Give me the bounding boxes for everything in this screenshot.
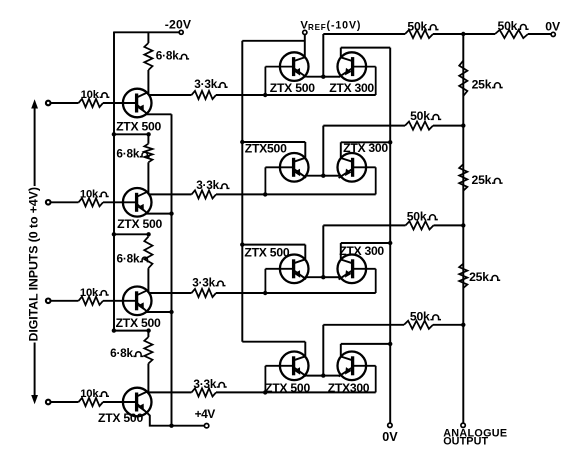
svg-text:ZTX 500: ZTX 500 [270,81,315,95]
svg-text:10k: 10k [80,287,99,299]
input range arrow [34,106,36,186]
resistor 6.8k row 3 [114,233,148,235]
transistor ZTX500 input bit 4 [123,388,152,417]
svg-text:DIGITAL INPUTS (0 to +4V): DIGITAL INPUTS (0 to +4V) [27,187,41,341]
junction node switch 4 [321,373,325,377]
svg-text:ZTX 300: ZTX 300 [339,244,384,258]
svg-text:25k: 25k [469,270,489,284]
resistor 6.8k row 2 [114,133,148,135]
0V bottom terminal [388,423,392,427]
svg-text:50k: 50k [407,209,427,223]
svg-text:-20V: -20V [165,17,192,31]
transistor ZTX500 input bit 2 [123,188,152,217]
input terminal bit 1 [46,101,51,106]
resistor 3.3k row 1 [148,94,191,96]
junction node switch 2 [321,174,325,178]
0V collector bus [389,48,391,423]
svg-text:3·3k: 3·3k [192,275,215,289]
svg-text:6·8k: 6·8k [156,49,179,63]
svg-text:6·8k: 6·8k [117,251,140,265]
svg-text:ZTX 500: ZTX 500 [244,246,289,260]
svg-text:3·3k: 3·3k [193,377,216,391]
transistor ZTX300 switch 3 [338,254,367,283]
transistor ZTX300 switch 2 [338,153,367,182]
svg-text:+4V: +4V [195,407,216,421]
Vref bus wire [304,35,306,58]
transistor ZTX500 switch 4 [280,352,309,381]
svg-text:50k: 50k [410,109,430,123]
+4V terminal [204,424,208,428]
transistor ZTX500 input bit 1 [123,89,152,118]
-20V terminal [179,30,183,34]
resistor 6.8k row 4 [114,330,148,332]
Vref terminal [303,30,307,34]
analogue output terminal [461,423,465,427]
svg-text:10k: 10k [80,188,99,200]
svg-text:ZTX500: ZTX500 [245,141,287,155]
svg-text:10k: 10k [80,388,99,400]
resistor 50k rung 1a [323,33,405,35]
svg-text:25k: 25k [472,77,492,91]
resistor 50k rung 2 [323,125,405,127]
svg-text:ZTX300: ZTX300 [328,381,370,395]
svg-text:ZTX 500: ZTX 500 [116,119,161,133]
junction node switch 1 [321,75,325,79]
svg-text:50k: 50k [498,19,518,33]
svg-text:3·3k: 3·3k [196,178,219,192]
svg-text:ZTX 500: ZTX 500 [265,381,310,395]
svg-text:ZTX 500: ZTX 500 [98,411,143,425]
resistor 50k rung 3 [323,224,405,226]
resistor 10k row 4 [50,401,79,403]
input terminal bit 2 [46,200,51,205]
svg-text:ZTX 500: ZTX 500 [116,316,161,330]
resistor 3.3k row 2 [148,193,191,195]
svg-text:6·8k: 6·8k [110,346,133,360]
junction node switch 3 [321,275,325,279]
svg-text:ZTX 500: ZTX 500 [117,217,162,231]
resistor 6.8k row 1 [147,32,149,43]
0V top terminal [551,32,555,36]
svg-text:50k: 50k [407,19,427,33]
svg-text:0V: 0V [382,430,398,444]
svg-text:3·3k: 3·3k [194,77,217,91]
svg-text:25k: 25k [472,173,492,187]
resistor 10k row 1 [50,102,79,104]
transistor ZTX500 switch 2 [280,153,309,182]
resistor 10k row 3 [50,300,79,302]
svg-text:6·8k: 6·8k [116,147,139,161]
transistor ZTX500 input bit 3 [123,287,152,316]
svg-text:0V: 0V [545,20,561,34]
resistor 3.3k row 4 [148,391,191,393]
ladder rail [462,34,464,423]
svg-text:ZTX 300: ZTX 300 [343,141,388,155]
transistor ZTX300 switch 4 [338,352,367,381]
resistor 50k rung 4 [323,324,404,326]
resistor 10k row 2 [50,201,79,203]
transistor ZTX300 switch 1 [338,52,367,81]
svg-text:50k: 50k [410,310,430,324]
transistor ZTX500 switch 1 [280,52,309,81]
resistor 25k 3 [459,264,467,288]
svg-text:10k: 10k [81,89,100,101]
svg-text:ZTX 300: ZTX 300 [329,81,374,95]
resistor 25k 2 [459,164,467,191]
svg-text:OUTPUT: OUTPUT [443,435,488,447]
resistor 3.3k row 3 [148,292,191,294]
input terminal bit 3 [46,299,51,304]
-20V rail wire [114,31,179,33]
input terminal bit 4 [46,400,51,405]
+4V emitter bus [171,114,173,425]
transistor ZTX500 switch 3 [280,254,309,283]
resistor 25k 1 [459,61,467,96]
resistor 50k rung 1b [463,33,495,35]
